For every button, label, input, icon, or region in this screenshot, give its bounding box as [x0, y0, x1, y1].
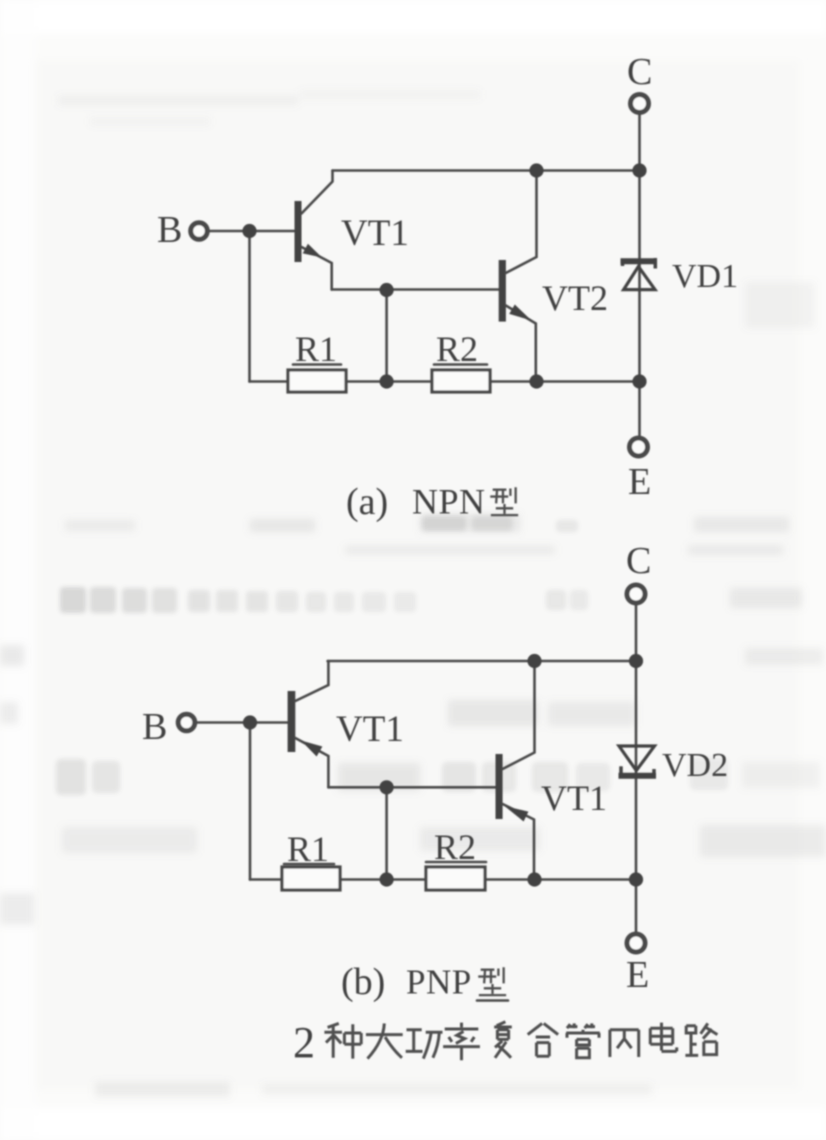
transistor VT2 (b) emitter arrow (PNP, into bar): [505, 806, 529, 822]
wire: middle junction vertical down to bottom rail (a): [385, 290, 388, 382]
transistor VT2 (a) base bar: [499, 260, 506, 322]
resistor R1 (b) body: [282, 867, 340, 890]
junction dot bottom mid (a): [380, 374, 394, 388]
wire: base lead from B (a): [208, 230, 295, 233]
svg-text:VD1: VD1: [672, 258, 738, 295]
svg-text:C: C: [626, 540, 651, 582]
junction dot top rail-right (b): [629, 654, 643, 668]
caption (a) hanzi XING: [490, 487, 518, 515]
transistor VT2 (b) emitter lead: [503, 804, 534, 880]
node E terminal circle (a): [630, 438, 648, 456]
transistor VT1 (a) emitter lead: [302, 247, 332, 290]
resistor R1 (a) label underline: [293, 363, 341, 366]
node C terminal circle (b): [627, 585, 645, 603]
caption hanzi LYU: [443, 1023, 480, 1061]
caption (b) hanzi underline: [477, 999, 508, 1002]
wire: main vertical C-to-E rail (b): [635, 605, 638, 932]
resistor R2 (a) label underline: [434, 363, 487, 366]
transistor VT1 (b) collector lead: [295, 661, 328, 701]
transistor VT2 (b) base bar: [496, 754, 503, 819]
resistor R1 (a) body: [288, 370, 346, 392]
node E terminal circle (b): [627, 934, 645, 952]
junction dot bottom mid (b): [380, 872, 394, 886]
resistor R2 (b) body: [426, 867, 485, 890]
transistor VT1 (b) emitter arrow (PNP, into bar): [301, 741, 322, 757]
junction dot bottom VT2 (b): [527, 872, 541, 886]
resistor R2 (b) label underline: [426, 861, 486, 864]
wire: bottom rail (b): [250, 878, 636, 881]
transistor VT2 (b) collector lead: [503, 661, 535, 769]
diode VD2 cathode right leg (b): [652, 769, 656, 778]
node B terminal circle (b): [178, 714, 195, 731]
svg-text:NPN: NPN: [412, 482, 486, 522]
caption hanzi FU: [494, 1022, 512, 1058]
wire: top horizontal collector rail (a): [333, 169, 640, 172]
junction dot top VT2 (a): [529, 163, 543, 177]
diode VD1 triangle (a): [624, 267, 655, 290]
diode VD2 cathode left leg (b): [619, 766, 623, 778]
svg-text:VT1: VT1: [541, 778, 607, 818]
junction dot emitter rail (b): [380, 780, 394, 794]
transistor VT2 (a) emitter arrow: [509, 305, 531, 321]
wire: left vertical from B junction down to bottom rail (b): [249, 723, 252, 880]
svg-text:VT1: VT1: [336, 709, 404, 750]
svg-text:(b): (b): [341, 961, 385, 1003]
svg-text:R2: R2: [436, 329, 478, 369]
junction dot top VT2 (b): [527, 654, 541, 668]
junction dot emitter rail (a): [380, 283, 394, 297]
svg-text:(a): (a): [346, 481, 388, 523]
transistor VT1 (a) collector lead: [302, 171, 333, 214]
junction dot top rail-right (a): [632, 163, 646, 177]
svg-text:2: 2: [293, 1018, 315, 1067]
transistor VT2 (a) emitter lead: [506, 306, 536, 382]
svg-text:VT1: VT1: [341, 213, 409, 254]
caption hanzi GUAN: [566, 1023, 600, 1057]
wire: main vertical C-to-E rail (a): [638, 115, 641, 437]
transistor VT2 (a) collector lead: [506, 171, 537, 274]
wire: middle junction vertical down to bottom rail (b): [385, 787, 388, 879]
transistor VT1 (b) base bar: [288, 691, 296, 752]
junction dot B (a): [242, 224, 256, 238]
svg-text:PNP: PNP: [406, 963, 472, 1002]
svg-text:VD2: VD2: [662, 747, 728, 784]
svg-text:E: E: [626, 954, 649, 996]
junction dot bottom rail-right (a): [632, 374, 646, 388]
node C terminal circle (a): [631, 95, 649, 113]
svg-text:B: B: [142, 706, 167, 748]
transistor VT1 (a) base bar: [295, 201, 302, 262]
transistor VT1 (a) emitter arrow: [303, 244, 322, 258]
caption hanzi DA: [366, 1023, 403, 1058]
wire: VT1 emitter to VT2 base (a): [332, 288, 499, 291]
svg-text:VT2: VT2: [542, 278, 608, 318]
junction dot B (b): [243, 715, 257, 729]
diode VD1 cathode left leg (a): [621, 259, 625, 267]
svg-text:C: C: [627, 51, 652, 93]
resistor R1 (b) label underline: [284, 863, 334, 866]
diode VD1 cathode bar (a): [621, 258, 658, 264]
svg-text:E: E: [628, 461, 651, 503]
caption hanzi LU: [685, 1023, 717, 1055]
caption hanzi HE: [528, 1023, 558, 1056]
wire: top horizontal collector rail (b): [328, 660, 636, 663]
caption hanzi DIAN: [650, 1023, 676, 1052]
wire: left vertical from B junction down to bottom rail (a): [248, 231, 251, 382]
transistor VT1 (b) emitter lead: [295, 738, 328, 787]
diode VD2 triangle (b): [619, 746, 655, 771]
diode VD2 cathode bar (b): [619, 773, 657, 779]
svg-text:R1: R1: [295, 329, 337, 369]
node B terminal circle (a): [191, 223, 208, 240]
caption hanzi ZHONG: [324, 1023, 361, 1058]
diode VD1 cathode right leg (a): [654, 258, 658, 269]
junction dot bottom VT2 (a): [529, 374, 543, 388]
svg-text:B: B: [157, 209, 182, 251]
resistor R2 (a) body: [432, 370, 490, 392]
wire: VT1 emitter to VT2 base (b): [328, 786, 495, 789]
junction dot bottom rail-right (b): [629, 872, 643, 886]
caption hanzi NEI: [610, 1030, 639, 1057]
caption (b) hanzi XING: [478, 967, 506, 995]
caption hanzi GONG: [406, 1030, 443, 1059]
wire: base lead from B (b): [197, 721, 288, 724]
wire: bottom rail (a): [250, 380, 640, 383]
